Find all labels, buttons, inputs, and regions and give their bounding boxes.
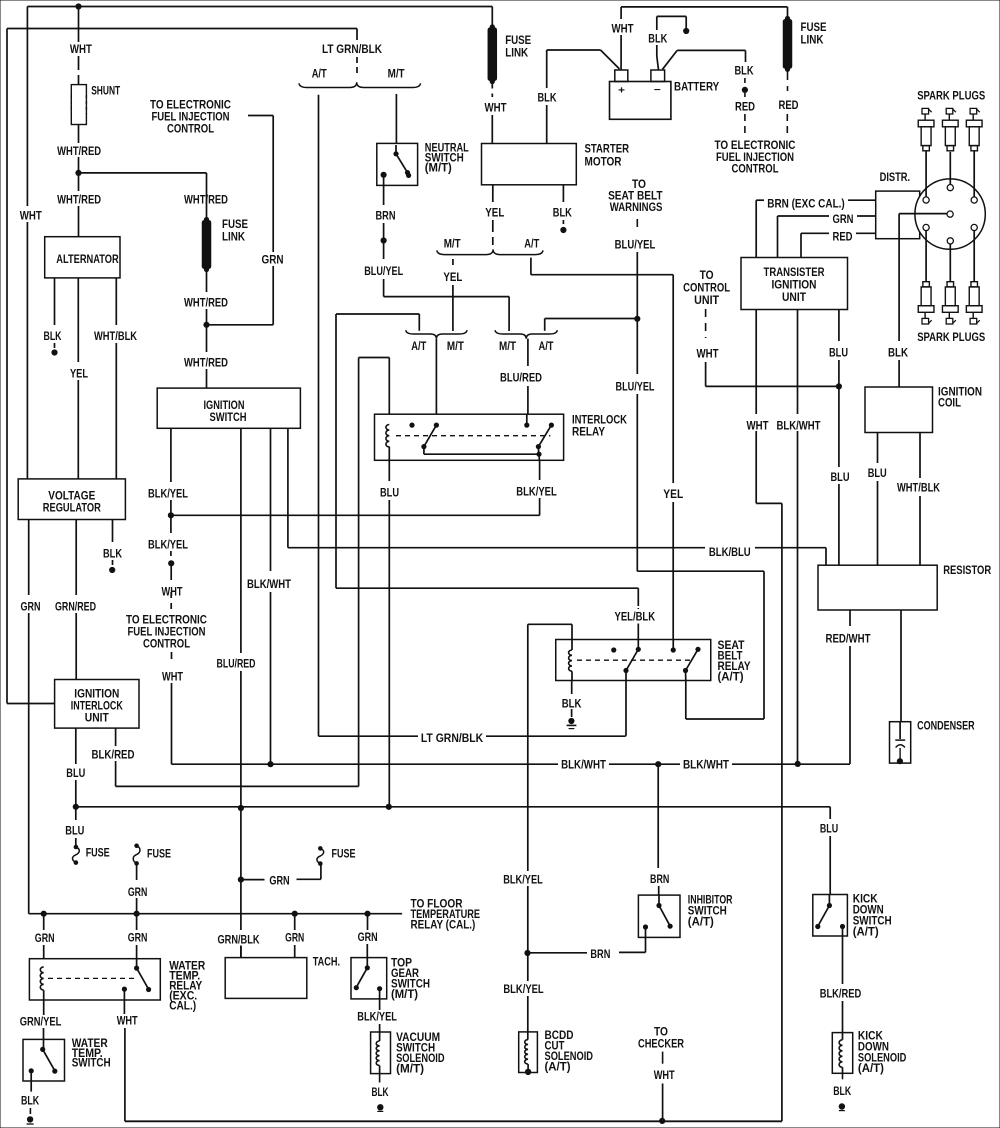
svg-text:IGNITION: IGNITION [204,400,245,412]
wire plug 4 lead [925,231,927,282]
node junction top rail / shunt feed [75,3,81,9]
node relay link corner [536,452,541,457]
svg-text:FUEL INJECTION: FUEL INJECTION [128,627,206,639]
ground seat belt relay [568,718,574,724]
wire transistor WHT pin [755,310,757,415]
water temp switch arm [40,1047,45,1052]
svg-text:WHT: WHT [20,211,42,223]
resistor [818,565,937,610]
wire second rail to LT GRN/BLK corner [7,28,357,30]
inhibitor switch arm [656,903,661,908]
distributor cap circle [915,179,985,249]
svg-text:GRN: GRN [128,933,148,945]
node BRN connector [381,237,387,243]
wire resistor RED/WHT pin [849,610,851,626]
svg-text:SEAT BELT: SEAT BELT [608,191,662,203]
node kick down solenoid terminal [839,1103,845,1109]
svg-text:BLK/YEL: BLK/YEL [516,487,557,499]
wire regulator BLK pin [112,520,114,543]
svg-text:(M/T): (M/T) [425,163,452,175]
kick down solenoid coil [842,1033,844,1040]
top gear switch arm [365,965,370,970]
wire plug 3 lead [973,151,975,197]
svg-text:UNIT: UNIT [782,292,806,304]
svg-text:GRN/RED: GRN/RED [55,602,96,614]
kick down switch output pin [840,924,845,929]
wire BRN (EXC CAL.) line [755,200,757,257]
svg-text:FUSE: FUSE [332,849,356,861]
battery [610,82,671,120]
ignition switch [157,388,300,428]
svg-text:REGULATOR: REGULATOR [43,503,102,515]
svg-text:SHUNT: SHUNT [91,85,120,97]
svg-text:BLK: BLK [44,331,63,343]
wire WHT/RED to alternator [78,173,80,191]
wire transistor BLU pin [838,310,840,342]
node condenser ground [897,758,903,764]
wire brace1 A/T branch (ignition switch side) [318,95,320,737]
svg-text:GRN: GRN [262,254,284,266]
node BLK starter dead end [560,227,566,233]
wire checker WHT [662,1052,664,1064]
wire far-left vertical to ignition interlock unit [6,29,8,704]
svg-text:STARTER: STARTER [585,144,630,156]
svg-text:GRN: GRN [285,933,304,945]
wire shunt feed WHT [78,7,80,43]
svg-text:WHT: WHT [70,44,92,56]
svg-text:BLK/YEL: BLK/YEL [357,1012,397,1024]
wire starter BLK pin [562,185,564,202]
svg-text:SPARK PLUGS: SPARK PLUGS [917,332,985,344]
seat belt relay switch 2 [695,647,700,652]
svg-text:BLU: BLU [829,348,848,360]
svg-text:(A/T): (A/T) [853,927,879,939]
node WHT connector [168,560,174,566]
svg-text:TO: TO [632,179,646,191]
svg-text:BLK: BLK [103,549,123,561]
node BLU/RED blue-rail junction [238,805,244,811]
wire GRN loop to EFI text [207,324,274,326]
svg-text:(A/T): (A/T) [545,1062,571,1074]
wire regulator GRN/RED pin [75,520,77,596]
svg-text:+: + [618,86,625,97]
wire regulator GRN pin down to bottom rail [28,520,30,596]
wire water relay coil GRN [43,914,45,930]
svg-text:BLU: BLU [868,468,887,480]
fuse F1 [74,845,79,850]
battery terminal negative [651,70,665,82]
tach [225,958,307,999]
wire condenser lead [900,610,902,722]
spark plug 5 [947,282,954,287]
bcdd cut solenoid [519,1032,538,1073]
wire coil BLU pin [877,433,879,464]
svg-text:WHT: WHT [654,1070,675,1082]
node water temp switch ground [27,1116,33,1122]
svg-text:A/T: A/T [411,341,426,353]
spark plug 6 [971,282,978,287]
wire WHT/RED into ignition switch [206,325,208,352]
svg-text:WHT: WHT [485,103,507,115]
wire BRN below neutral switch [383,185,385,205]
svg-text:IGNITION: IGNITION [74,689,119,701]
water temp relay output pin [122,987,127,992]
wire RED dash to efi text [744,93,746,99]
svg-text:WHT/RED: WHT/RED [184,298,228,310]
node BLU / blue rail junction [73,804,79,810]
svg-text:RED/WHT: RED/WHT [826,634,871,646]
wire fuse link to starter WHT [491,82,493,98]
svg-text:WARNINGS: WARNINGS [610,202,663,214]
svg-text:RELAY: RELAY [572,427,605,439]
svg-text:LT GRN/BLK: LT GRN/BLK [421,733,484,745]
brace M/T-A/T (starter yel) [437,249,543,254]
wire yel/blk loop to brace3 A/T [335,314,337,588]
svg-text:FUEL INJECTION: FUEL INJECTION [716,152,794,164]
wire brace4 center BLU/RED [527,339,529,366]
water temp switch output pin [29,1068,34,1073]
node BLK/WHT terminal on rail [267,761,273,767]
svg-text:WHT: WHT [162,672,183,684]
node green rail water relay coil [41,911,47,917]
svg-text:GRN: GRN [128,887,148,899]
svg-text:A/T: A/T [539,341,554,353]
svg-text:TACH.: TACH. [313,957,340,969]
wire ignition switch BLK/WHT pin [270,428,272,571]
wire BLK/BLU horizontal [288,547,705,549]
seat belt relay switch 1 [636,647,641,652]
bcdd coil [527,1032,529,1040]
seat belt relay pin dot a [611,647,616,652]
svg-text:YEL: YEL [485,208,504,220]
relay switch 2 [549,423,554,428]
wire alternator BLK pin [54,278,56,325]
wire WHT long vertical [781,503,783,1121]
svg-text:(A/T): (A/T) [718,672,744,684]
svg-text:WHT: WHT [612,24,634,36]
condenser [890,722,911,763]
wire tach GRN [294,914,296,930]
svg-text:BRN: BRN [376,211,396,223]
svg-text:−: − [654,85,661,96]
distributor terminal circles [923,197,929,203]
wire tach GRN/BLK [240,946,242,958]
svg-text:FUEL INJECTION: FUEL INJECTION [152,112,230,124]
wire BLK/YEL top gear [379,999,381,1010]
svg-text:WHT/RED: WHT/RED [57,146,101,158]
svg-text:(M/T): (M/T) [391,989,418,1001]
neutral switch lower pin [381,172,387,178]
wire junction to fuse link branch [79,172,207,174]
svg-text:BLK/YEL: BLK/YEL [148,489,188,501]
top gear switch output pin [377,986,382,991]
wire brace4 A/T feed [544,319,546,331]
wire plug 5 lead [949,244,951,282]
svg-text:CONTROL: CONTROL [683,283,730,295]
svg-text:FUSE: FUSE [86,848,110,860]
wire WHT below connector [170,563,172,580]
wire BLK kick down solenoid [842,1073,844,1082]
svg-text:TRANSISTER: TRANSISTER [764,267,826,279]
wire fuse2 to green rail [136,863,138,880]
wire top right rail [621,6,787,8]
wire M/T-A/T merge horizontal [384,296,510,298]
interlock relay [375,414,564,460]
node BLU/RED fuse3 junction [238,877,244,883]
svg-text:YEL: YEL [663,489,683,501]
starter motor [482,144,577,185]
fuse link left [491,7,493,27]
vacuum solenoid coil [379,1032,381,1041]
svg-text:M/T: M/T [388,69,405,81]
wire battery BLK drop [656,45,658,56]
wire RED line to distributor [800,233,802,257]
kick down solenoid [832,1033,852,1074]
brace A/T-M/T top [299,82,421,87]
svg-text:BLK/YEL: BLK/YEL [503,874,543,886]
svg-text:WHT: WHT [162,587,183,599]
wire seat belt relay sw1 to LT GRN/BLK [625,671,627,736]
wire ignition switch fourth pin [287,428,289,547]
node BLK/WHT inhibitor junction [655,761,661,767]
wire BLK vacuum dash [379,1074,381,1083]
svg-text:BLU: BLU [380,488,399,500]
svg-text:BLK/BLU: BLK/BLU [709,547,751,559]
kick down switch [813,895,848,937]
brace blu/red merge [495,330,557,339]
svg-text:BLU/YEL: BLU/YEL [616,382,655,394]
svg-text:CONTROL: CONTROL [143,639,190,651]
svg-text:BLK: BLK [833,1086,852,1098]
node battery hook terminal [683,28,689,34]
node BLU relay blue-rail junction [386,804,392,810]
svg-text:BLU/YEL: BLU/YEL [364,266,403,278]
wire BLK/YEL horizontal to interlock relay [171,514,540,516]
svg-text:WHT/BLK: WHT/BLK [94,331,138,343]
water temp relay coil [40,967,43,990]
svg-text:RED: RED [833,232,853,244]
svg-text:BLU/YEL: BLU/YEL [615,240,656,252]
battery terminal positive [615,70,628,82]
node fuse link / GRN junction [203,322,209,328]
node BLK dead end [51,349,57,355]
svg-text:MOTOR: MOTOR [585,157,623,169]
svg-text:TO: TO [654,1027,668,1039]
svg-text:INTERLOCK: INTERLOCK [71,701,124,713]
battery negative hook [656,16,658,30]
node green rail tach [292,911,298,917]
seat belt relay YEL contact [671,647,676,652]
wire battery to EFI BLK/RED [663,50,678,69]
svg-text:BLK: BLK [648,34,668,46]
svg-text:GRN: GRN [269,875,289,887]
svg-text:COIL: COIL [938,398,961,410]
relay dashed link [396,435,550,437]
node BLU control unit junction [836,383,842,389]
svg-text:CONTROL: CONTROL [732,163,779,175]
wire relay contact link [423,447,425,455]
wire shunt to WHT/RED junction [78,125,80,144]
wire starter YEL pin [492,185,494,202]
wire GRN/YEL [43,990,45,1000]
svg-text:BRN: BRN [590,949,610,961]
node checker rail junction [659,1118,665,1124]
svg-text:WHT/RED: WHT/RED [57,195,101,207]
svg-text:GRN/BLK: GRN/BLK [218,935,261,947]
wire interlock relay coil BLU down [388,447,390,461]
wire fuse link to ignition switch WHT/RED [206,270,208,293]
svg-text:GRN: GRN [35,933,55,945]
svg-text:BLK: BLK [888,348,909,360]
wire kick down BLU drop [829,807,831,819]
wire BLK/RED run to relay coil riser [116,785,359,787]
brace interlock relay merge [406,330,467,339]
water temp relay dashed link [48,977,136,979]
wire plug 1 lead [925,151,927,197]
wire brace2 A/T branch YEL long [530,258,532,275]
svg-text:M/T: M/T [444,239,461,251]
wire coil WHT/BLK pin [919,433,921,479]
wire YEL/BLK drop [336,587,638,589]
svg-text:BLK: BLK [735,66,755,78]
svg-text:BLU: BLU [831,472,850,484]
wire seat belt relay coil BLK [571,671,573,680]
wire BLU/YEL neutral [383,241,385,260]
wire BLU/YEL vertical [636,252,638,319]
voltage regulator [18,479,125,520]
svg-text:CONDENSER: CONDENSER [917,721,975,733]
svg-text:BLK: BLK [553,208,573,220]
fuse F2 [134,844,139,849]
wire ignition switch BLU/RED pin [240,428,242,653]
wire green rail [29,913,402,915]
wire RED below fuse link [787,69,789,80]
wire BRN to BLK/YEL junction [528,952,588,954]
top gear switch [351,958,387,999]
node BLK regulator dead end [109,567,115,573]
wire transistor BLK/WHT pin [797,310,799,415]
node green rail fuse2 [134,911,140,917]
wire BLK/YEL continues down [170,515,172,533]
svg-text:GRN/YEL: GRN/YEL [20,1016,62,1028]
wire bottom rail [125,1120,782,1122]
svg-text:(A/T): (A/T) [688,917,714,929]
svg-text:TO ELECTRONIC: TO ELECTRONIC [126,615,207,627]
svg-text:UNIT: UNIT [85,713,109,725]
wire BLK dash [744,78,746,86]
svg-text:LINK: LINK [222,232,246,244]
svg-text:BLU/RED: BLU/RED [217,659,256,671]
wire blue rail [76,806,830,808]
node BLK/RED junction battery [742,87,748,93]
svg-text:CONTROL: CONTROL [167,124,214,136]
svg-text:INTERLOCK: INTERLOCK [572,415,628,427]
spark plug 3 [970,108,977,114]
wire seat belt warnings dash [636,219,638,231]
vacuum switch solenoid [371,1032,391,1074]
wire WHT water relay [123,1000,125,1014]
switch arm neutral [395,145,397,154]
node bcdd terminal [525,1069,531,1075]
relay coil interlock [386,425,389,447]
svg-text:M/T: M/T [499,341,516,353]
wire BLK/WHT rail [172,763,559,765]
wire alternator YEL pin [77,278,79,362]
fuse link center [204,217,209,222]
seat belt relay coil feed [527,624,529,871]
svg-text:ALTERNATOR: ALTERNATOR [56,254,119,266]
svg-text:BLU: BLU [66,768,85,780]
svg-text:FUSE: FUSE [505,35,531,47]
svg-text:WHT: WHT [747,421,769,433]
wire top gear GRN [367,914,369,930]
svg-text:BLK/WHT: BLK/WHT [561,760,606,772]
neutral switch [377,143,418,185]
svg-text:BLK/WHT: BLK/WHT [683,760,729,772]
wire BLU/YEL bypass to relay switch2 [637,570,764,572]
svg-text:BRN: BRN [650,874,669,886]
node green rail top gear [364,911,370,917]
wire BLK/YEL bcdd feed [527,953,529,981]
wire distributor GRN center lead [899,213,947,215]
alternator [45,237,120,278]
svg-text:CHECKER: CHECKER [638,1038,685,1050]
wire GRN line to distributor [777,216,779,258]
distributor housing [876,191,920,239]
svg-text:(A/T): (A/T) [858,1063,884,1075]
fuse F3 [318,846,323,851]
wire left outer WHT vertical [26,7,28,207]
seat belt relay coil [569,650,572,671]
svg-text:WHT: WHT [697,349,719,361]
wire brace2 M/T branch YEL [452,259,454,268]
wire control unit WHT [705,309,707,338]
wire inhibitor BRN drop [657,764,659,868]
node BLK/YEL BRN junction [524,950,530,956]
wire brace3 center to interlock relay [435,339,437,414]
svg-text:GRN: GRN [833,214,854,226]
node vacuum solenoid terminal [377,1104,383,1110]
svg-text:LT GRN/BLK: LT GRN/BLK [322,44,383,56]
svg-text:CAL.): CAL.) [169,1001,196,1013]
water temp relay switch [134,966,139,971]
svg-text:GRN: GRN [358,932,378,944]
svg-text:FUSE: FUSE [222,219,248,231]
svg-text:DISTR.: DISTR. [880,172,911,184]
shunt [71,85,86,125]
svg-text:M/T: M/T [447,341,464,353]
svg-text:BLK/RED: BLK/RED [820,989,862,1001]
wire alternator WHT/BLK pin [115,278,117,325]
wire plug 6 lead [973,231,975,282]
svg-text:YEL: YEL [70,369,88,381]
svg-text:A/T: A/T [312,69,327,81]
wire fuse3 hook to BLU/RED [320,864,322,880]
svg-text:BLK: BLK [371,1087,389,1099]
wire LT GRN/BLK run to seat belt relay [319,735,419,737]
spark plug 2 [946,108,953,114]
svg-text:(M/T): (M/T) [396,1063,424,1075]
svg-text:A/T: A/T [524,239,539,251]
inhibitor switch output pin [643,924,648,929]
wire starter BLK to battery [546,105,548,144]
svg-text:BLU/RED: BLU/RED [500,373,542,385]
svg-text:BRN (EXC CAL.): BRN (EXC CAL.) [767,199,845,211]
wire water relay switch GRN [136,914,138,930]
svg-text:BLK/WHT: BLK/WHT [777,421,821,433]
svg-text:RESISTOR: RESISTOR [943,565,992,577]
svg-text:BLK/YEL: BLK/YEL [148,540,188,552]
